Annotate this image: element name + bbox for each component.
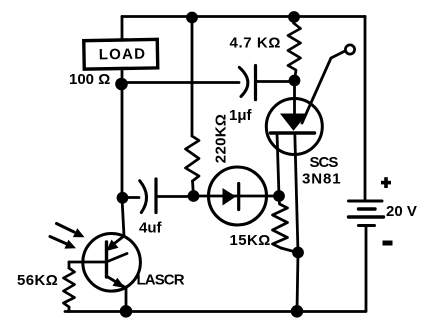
svg-text:4.7 KΩ: 4.7 KΩ <box>230 35 281 52</box>
svg-text:56KΩ: 56KΩ <box>17 272 58 289</box>
svg-text:SCS: SCS <box>310 154 339 171</box>
svg-text:LASCR: LASCR <box>137 272 185 289</box>
svg-text:1μf: 1μf <box>229 107 253 124</box>
svg-text:LOAD: LOAD <box>99 46 147 64</box>
svg-text:20 V: 20 V <box>386 203 417 220</box>
svg-text:4uf: 4uf <box>139 220 163 237</box>
svg-text:3N81: 3N81 <box>302 171 341 188</box>
svg-text:100 Ω: 100 Ω <box>69 71 110 88</box>
svg-text:15KΩ: 15KΩ <box>230 232 271 249</box>
svg-text:220KΩ: 220KΩ <box>213 114 230 163</box>
